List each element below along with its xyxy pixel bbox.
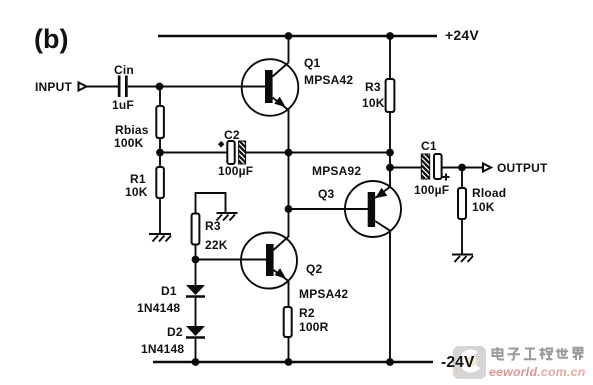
wire Q3 base — [289, 208, 369, 210]
svg-text:R3: R3 — [205, 219, 221, 233]
svg-text:-24V: -24V — [441, 354, 475, 371]
resistor Rbias — [156, 106, 164, 138]
label 100uF C1 — [414, 183, 449, 197]
label R3 22K — [205, 219, 221, 233]
wire Q2 emitter to R2 — [288, 281, 290, 308]
label R1 — [130, 172, 146, 186]
svg-text:R1: R1 — [130, 172, 146, 186]
svg-text:Q2: Q2 — [306, 262, 323, 276]
svg-text:(b): (b) — [34, 24, 68, 54]
resistor R3 22K — [192, 214, 200, 245]
svg-text:eeworld.com.cn: eeworld.com.cn — [489, 365, 586, 379]
svg-text:1N4148: 1N4148 — [137, 301, 180, 315]
node C2 emitter junction — [285, 149, 293, 157]
svg-text:MPSA42: MPSA42 — [299, 287, 348, 301]
wire C1 tap — [390, 167, 421, 169]
svg-text:100K: 100K — [114, 136, 144, 150]
wire R3 to junctions and Q3 emitter — [389, 112, 391, 186]
capacitor Cin — [118, 76, 128, 98]
label +24V — [445, 27, 479, 43]
wire output node to Rload to ground — [461, 168, 463, 255]
label Rbias — [115, 123, 149, 137]
eeworld watermark logo — [453, 346, 486, 379]
svg-text:D1: D1 — [161, 284, 177, 298]
svg-text:R3: R3 — [365, 80, 381, 94]
wire D2 to rail — [195, 338, 197, 362]
plus mark C2 — [218, 141, 225, 148]
wire node to D1 — [195, 260, 197, 286]
wire node to R1 and R1 to ground — [159, 153, 161, 234]
wire D1 to D2 — [195, 297, 197, 326]
label 1uF — [112, 98, 134, 112]
capacitor C2 — [227, 141, 245, 164]
figure label (b) — [34, 24, 68, 54]
label 10K Rload — [472, 200, 495, 214]
plus mark C1 — [443, 174, 450, 181]
label MPSA42 Q1 — [304, 73, 353, 87]
svg-text:10K: 10K — [362, 96, 385, 110]
label MPSA92 — [312, 164, 361, 178]
svg-text:10K: 10K — [125, 185, 148, 199]
svg-text:Q1: Q1 — [304, 56, 321, 70]
svg-text:D2: D2 — [167, 325, 183, 339]
wire Rbias to node — [159, 138, 161, 153]
svg-text:R2: R2 — [299, 306, 315, 320]
node bias junction — [156, 149, 164, 157]
resistor R3 10K — [386, 79, 395, 112]
svg-text:MPSA92: MPSA92 — [312, 164, 361, 178]
svg-text:Rbias: Rbias — [115, 123, 149, 137]
label R2 — [299, 306, 315, 320]
wire junction to Rbias — [159, 87, 161, 107]
wire Q1 collector to rail — [288, 36, 290, 63]
wire Q2 base — [196, 259, 267, 261]
wire Cin to Q1 base — [128, 86, 265, 88]
rail -24V — [153, 361, 433, 364]
wire C1 to output node — [442, 167, 482, 169]
resistor R1 — [156, 167, 164, 198]
node input junction — [156, 83, 164, 91]
label INPUT — [35, 80, 72, 94]
node R2 rail junction — [285, 358, 293, 366]
transistor Q2 — [241, 233, 297, 289]
ground above R3 22K — [217, 213, 238, 221]
transistor Q1 — [242, 59, 299, 116]
label 10K R1 — [125, 185, 148, 199]
label R3 10K — [365, 80, 381, 94]
svg-text:+24V: +24V — [445, 27, 479, 43]
wire Q1 emitter down to Q2 collector — [288, 109, 290, 237]
label Q1 — [304, 56, 321, 70]
node Q3 base junction — [285, 205, 293, 213]
wire rail to R3 — [389, 36, 391, 79]
output terminal — [483, 164, 491, 172]
svg-text:C1: C1 — [421, 139, 437, 153]
svg-text:Rload: Rload — [472, 186, 506, 200]
node output junction — [458, 164, 466, 172]
ground below Rload — [452, 255, 473, 263]
wire R3 22K to node — [195, 245, 197, 260]
svg-text:Cin: Cin — [114, 63, 134, 77]
diode D1 — [186, 285, 205, 297]
svg-text:MPSA42: MPSA42 — [304, 73, 353, 87]
label 1N4148 D1 — [137, 301, 180, 315]
transistor Q3 — [345, 181, 401, 237]
node Q2 base junction — [192, 256, 200, 264]
svg-text:1uF: 1uF — [112, 98, 134, 112]
node collector rail junction — [285, 32, 293, 40]
wire bootstrap loop to ground — [196, 193, 226, 214]
label OUTPUT — [497, 161, 548, 175]
svg-text:Q3: Q3 — [318, 187, 335, 201]
watermark text chinese dianzi gongcheng shijie — [493, 347, 584, 360]
wire input to Cin — [87, 86, 118, 88]
label 22K — [205, 238, 228, 252]
svg-text:100µF: 100µF — [414, 183, 449, 197]
diode D2 — [186, 326, 205, 338]
label Cin — [114, 63, 134, 77]
label 100K — [114, 136, 144, 150]
label MPSA42 Q2 — [299, 287, 348, 301]
label D1 — [161, 284, 177, 298]
label C1 — [421, 139, 437, 153]
node C1 tap junction — [386, 164, 394, 172]
rail +24V — [158, 35, 437, 38]
label 10K R3 — [362, 96, 385, 110]
ground below R1 — [149, 234, 171, 242]
svg-text:1N4148: 1N4148 — [141, 342, 184, 356]
label Q3 — [318, 187, 335, 201]
input terminal — [79, 83, 87, 91]
svg-text:OUTPUT: OUTPUT — [497, 161, 548, 175]
svg-text:22K: 22K — [205, 238, 228, 252]
wire R2 to rail — [288, 337, 290, 362]
watermark text eeworld.com.cn — [489, 365, 586, 379]
node C2 R3 junction — [386, 149, 394, 157]
label -24V — [441, 354, 475, 371]
svg-text:INPUT: INPUT — [35, 80, 72, 94]
resistor Rload — [458, 188, 466, 219]
label D2 — [167, 325, 183, 339]
wire Q3 collector to rail — [389, 231, 391, 363]
label C2 — [224, 128, 240, 142]
label 1N4148 D2 — [141, 342, 184, 356]
node D2 rail junction — [192, 358, 200, 366]
svg-text:10K: 10K — [472, 200, 495, 214]
label 100uF C2 — [218, 164, 253, 178]
wire node to C2 — [160, 152, 227, 154]
label 100R — [299, 320, 329, 334]
capacitor C1 — [421, 154, 441, 179]
node Q3 collector rail junction — [386, 358, 394, 366]
label Q2 — [306, 262, 323, 276]
node R3 rail junction — [386, 32, 394, 40]
svg-text:C2: C2 — [224, 128, 240, 142]
svg-text:100R: 100R — [299, 320, 329, 334]
label Rload — [472, 186, 506, 200]
wire C2 to R3 column — [246, 152, 390, 154]
svg-text:100µF: 100µF — [218, 164, 253, 178]
resistor R2 — [284, 307, 292, 337]
